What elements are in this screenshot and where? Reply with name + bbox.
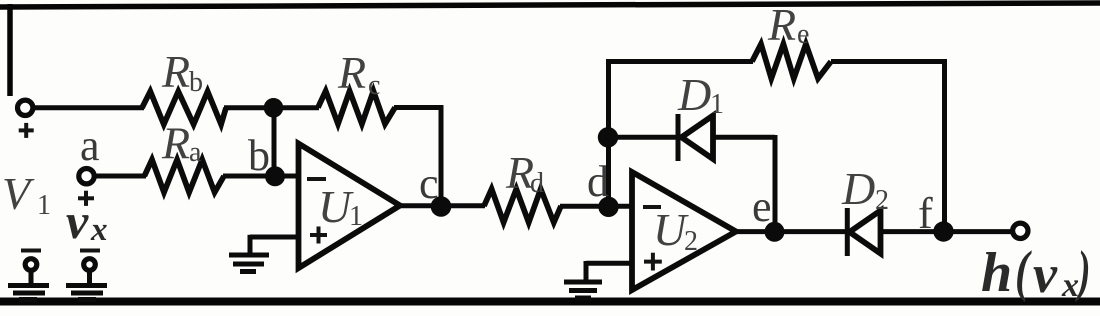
svg-text:c: c xyxy=(368,70,380,101)
svg-text:R: R xyxy=(767,0,796,50)
svg-text:b: b xyxy=(248,131,270,180)
svg-text:D: D xyxy=(677,69,711,120)
svg-text:1: 1 xyxy=(37,190,51,221)
svg-text:d: d xyxy=(587,157,609,206)
svg-text:x: x xyxy=(1061,267,1079,304)
svg-text:d: d xyxy=(530,168,544,199)
svg-text:R: R xyxy=(161,46,190,97)
svg-text:1: 1 xyxy=(349,201,363,232)
svg-text:2: 2 xyxy=(684,226,698,257)
svg-text:R: R xyxy=(337,47,366,98)
svg-text:c: c xyxy=(419,159,439,208)
svg-text:1: 1 xyxy=(710,89,724,120)
svg-text:V: V xyxy=(2,168,35,219)
svg-text:h: h xyxy=(981,242,1012,304)
svg-text:b: b xyxy=(189,67,203,98)
svg-text:x: x xyxy=(90,212,108,248)
svg-text:2: 2 xyxy=(875,185,889,216)
svg-text:v: v xyxy=(1033,244,1058,304)
svg-text:R: R xyxy=(161,118,190,169)
svg-text:D: D xyxy=(841,163,875,214)
svg-text:a: a xyxy=(189,137,202,168)
svg-text:e: e xyxy=(752,182,772,231)
svg-text:a: a xyxy=(80,121,100,170)
svg-text:v: v xyxy=(66,193,89,249)
svg-text:e: e xyxy=(797,19,809,50)
svg-text:f: f xyxy=(918,189,933,238)
